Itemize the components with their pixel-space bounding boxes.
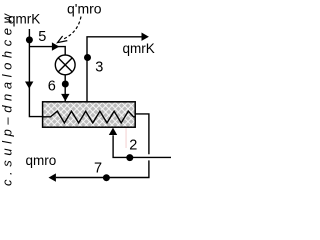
svg-text:c.sulp–dnalohcew: c.sulp–dnalohcew [0, 12, 15, 186]
svg-text:3: 3 [95, 60, 103, 76]
svg-text:6: 6 [48, 78, 56, 94]
svg-text:qmrK: qmrK [8, 12, 40, 27]
svg-text:qmro: qmro [26, 153, 57, 168]
svg-text:qmrK: qmrK [123, 41, 155, 56]
svg-text:5: 5 [38, 29, 46, 45]
svg-text:q'mro: q'mro [67, 1, 102, 17]
svg-text:7: 7 [94, 160, 102, 176]
svg-text:2: 2 [129, 137, 137, 153]
